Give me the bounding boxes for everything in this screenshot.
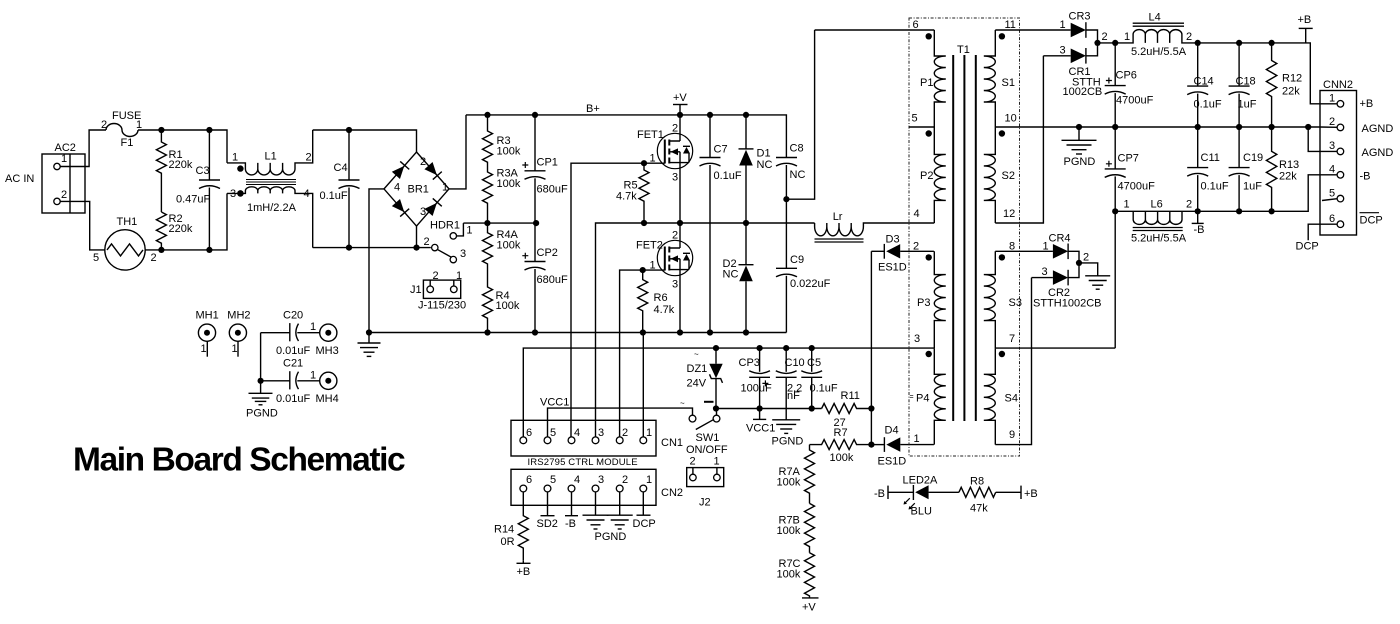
svg-text:11: 11 bbox=[1005, 19, 1016, 31]
svg-text:S4: S4 bbox=[1005, 393, 1018, 405]
svg-text:3: 3 bbox=[598, 427, 604, 439]
winding P1 bbox=[934, 30, 946, 127]
connector CN1 bbox=[511, 420, 656, 456]
svg-text:DCP: DCP bbox=[1360, 215, 1383, 227]
svg-text:100k: 100k bbox=[777, 477, 801, 489]
node junction C10 top bbox=[783, 345, 789, 351]
wire BR1 pin1 to B+ rail bbox=[449, 115, 466, 189]
svg-text:2: 2 bbox=[1186, 31, 1192, 43]
inductor L6 5.2uH/5.5A bbox=[1133, 211, 1182, 224]
svg-text:VCC1: VCC1 bbox=[540, 397, 569, 409]
svg-text:4: 4 bbox=[394, 182, 400, 194]
svg-text:+V: +V bbox=[802, 602, 816, 614]
svg-text:PGND: PGND bbox=[595, 531, 627, 543]
svg-text:0R: 0R bbox=[501, 536, 515, 548]
svg-text:5.2uH/5.5A: 5.2uH/5.5A bbox=[1131, 233, 1187, 245]
svg-text:~: ~ bbox=[680, 399, 685, 408]
svg-text:SD2: SD2 bbox=[537, 518, 558, 530]
svg-text:1: 1 bbox=[650, 260, 656, 272]
node junction C18 bottom bbox=[1236, 124, 1242, 130]
node T1 phase dot S4 bbox=[999, 351, 1005, 357]
svg-text:BLU: BLU bbox=[911, 506, 932, 518]
svg-text:1: 1 bbox=[1329, 93, 1335, 105]
svg-text:6: 6 bbox=[1329, 213, 1335, 225]
svg-text:2: 2 bbox=[622, 474, 628, 486]
svg-text:+B: +B bbox=[517, 566, 531, 578]
wire bottom-left rail bbox=[145, 193, 227, 250]
resistor R14 0R bbox=[518, 492, 528, 560]
svg-text:MH2: MH2 bbox=[227, 310, 250, 322]
resistor R7A 100k bbox=[805, 445, 815, 504]
svg-text:680uF: 680uF bbox=[537, 274, 568, 286]
svg-text:L4: L4 bbox=[1149, 12, 1161, 24]
wire T1 pin12 to CR1 bbox=[995, 56, 1043, 223]
svg-text:C20: C20 bbox=[283, 310, 303, 322]
svg-text:1: 1 bbox=[1124, 31, 1130, 43]
svg-text:Lr: Lr bbox=[833, 211, 843, 223]
node junction L6 pin1 bbox=[1112, 208, 1118, 214]
wire power ground rail bbox=[369, 332, 786, 334]
svg-text:ES1D: ES1D bbox=[878, 262, 907, 274]
wire CR output node bbox=[1098, 42, 1116, 44]
svg-text:CN1: CN1 bbox=[661, 437, 683, 449]
svg-text:-B: -B bbox=[1194, 224, 1205, 236]
svg-text:DZ1: DZ1 bbox=[687, 363, 708, 375]
wire CNN2 pin3 riser bbox=[1308, 127, 1320, 151]
svg-text:C4: C4 bbox=[334, 162, 348, 174]
svg-text:680uF: 680uF bbox=[537, 184, 568, 196]
node junction CP2 bottom bbox=[532, 329, 538, 335]
node junction CP1 top bbox=[532, 112, 538, 118]
wire half-bridge mid rail bbox=[596, 223, 815, 440]
node junction R12 bottom bbox=[1269, 124, 1275, 130]
wire CR2 CR4 to ground bbox=[1079, 263, 1098, 276]
resistor R11 27 bbox=[822, 404, 872, 414]
capacitor C8 NC bbox=[776, 157, 797, 159]
svg-text:C8: C8 bbox=[790, 143, 804, 155]
svg-text:CP1: CP1 bbox=[537, 157, 558, 169]
node junction D1 top bbox=[743, 112, 749, 118]
svg-text:C3: C3 bbox=[196, 165, 210, 177]
svg-text:2: 2 bbox=[151, 252, 157, 264]
svg-text:P3: P3 bbox=[917, 297, 930, 309]
node junction C5 top bbox=[809, 345, 815, 351]
svg-text:1: 1 bbox=[201, 343, 207, 355]
power +V bbox=[679, 105, 681, 115]
svg-text:C11: C11 bbox=[1201, 152, 1220, 164]
node junction C18 top bbox=[1236, 40, 1242, 46]
svg-text:AC IN: AC IN bbox=[5, 173, 34, 185]
svg-text:1: 1 bbox=[232, 343, 238, 355]
wire CN1 pin1 to gnd rail bbox=[642, 333, 644, 441]
svg-text:R13: R13 bbox=[1279, 159, 1299, 171]
svg-text:0.1uF: 0.1uF bbox=[714, 170, 742, 182]
svg-text:3: 3 bbox=[914, 333, 920, 345]
svg-text:B+: B+ bbox=[586, 103, 600, 115]
diode DZ1 24V zener bbox=[715, 348, 717, 364]
svg-text:CR4: CR4 bbox=[1049, 233, 1071, 245]
svg-text:S1: S1 bbox=[1002, 77, 1015, 89]
svg-text:3: 3 bbox=[672, 279, 678, 291]
svg-text:S2: S2 bbox=[1002, 170, 1015, 182]
svg-text:2: 2 bbox=[622, 427, 628, 439]
svg-text:-B: -B bbox=[565, 518, 576, 530]
connector J1 J-115/230 bbox=[423, 280, 460, 298]
svg-text:3: 3 bbox=[1060, 45, 1066, 57]
fuse F1 bbox=[106, 124, 138, 137]
svg-text:BR1: BR1 bbox=[408, 184, 429, 196]
inductor L1 bottom winding bbox=[227, 187, 313, 248]
svg-text:=: = bbox=[910, 394, 914, 401]
wire divider mid rail bbox=[463, 222, 536, 224]
svg-text:4: 4 bbox=[1329, 164, 1335, 176]
node junction FET2 source bbox=[677, 329, 683, 335]
svg-text:22k: 22k bbox=[1279, 171, 1297, 183]
resistor R4A 100k bbox=[483, 223, 493, 283]
svg-text:1: 1 bbox=[714, 456, 720, 468]
winding S2 bbox=[984, 127, 996, 223]
svg-text:1: 1 bbox=[914, 433, 920, 445]
svg-text:VCC1: VCC1 bbox=[746, 423, 775, 435]
wire T1 pin10 AGND rail bbox=[995, 126, 1320, 128]
capacitor C9 0.022uF bbox=[776, 267, 797, 269]
svg-text:0.1uF: 0.1uF bbox=[1201, 181, 1229, 193]
resistor R7 100k bbox=[810, 440, 872, 450]
node junction CP1 bottom bbox=[533, 220, 539, 226]
node junction FET2 gate bbox=[640, 267, 646, 273]
capacitor CP3 100uF bbox=[759, 348, 761, 372]
svg-text:P2: P2 bbox=[920, 170, 933, 182]
hole MH4 bbox=[320, 372, 337, 389]
ground PGND mid rail bbox=[1078, 127, 1080, 140]
svg-text:C5: C5 bbox=[807, 357, 821, 369]
node T1 phase dot P2 bbox=[926, 130, 932, 136]
winding P2 bbox=[934, 127, 946, 223]
capacitor CP6 4700uF bbox=[1114, 43, 1116, 86]
svg-text:100k: 100k bbox=[777, 525, 801, 537]
net -B flag bbox=[571, 492, 573, 516]
svg-text:CP2: CP2 bbox=[537, 247, 558, 259]
wire T1 pin11 lead bbox=[995, 29, 1070, 31]
svg-text:1002CB: 1002CB bbox=[1063, 86, 1103, 98]
svg-text:2: 2 bbox=[61, 189, 67, 201]
svg-text:ON/OFF: ON/OFF bbox=[686, 444, 728, 456]
svg-text:2: 2 bbox=[913, 241, 919, 253]
wire AC2 pin1 to fuse bbox=[60, 130, 106, 167]
svg-text:4: 4 bbox=[574, 427, 580, 439]
wire T1 pin7 lead bbox=[995, 347, 1115, 349]
svg-text:0.1uF: 0.1uF bbox=[1194, 99, 1222, 111]
svg-text:C14: C14 bbox=[1194, 76, 1214, 88]
net SD2 flag bbox=[547, 492, 549, 516]
svg-text:+B: +B bbox=[1360, 98, 1374, 110]
capacitor CP1 680uF bbox=[534, 115, 536, 171]
node L1 phase dot pin3 bbox=[237, 190, 244, 197]
node junction R7 right bbox=[868, 442, 874, 448]
svg-text:5: 5 bbox=[550, 427, 556, 439]
winding S4 bbox=[984, 348, 996, 445]
winding S1 bbox=[984, 30, 996, 127]
svg-text:0.1uF: 0.1uF bbox=[810, 383, 838, 395]
wire HDR1 blade bbox=[438, 250, 452, 258]
svg-text:2: 2 bbox=[424, 236, 430, 248]
svg-text:AGND: AGND bbox=[1362, 147, 1394, 159]
node junction C4 top bbox=[346, 127, 352, 133]
node junction D1 bottom bbox=[743, 220, 749, 226]
node junction DZ1 bottom bbox=[713, 405, 719, 411]
svg-text:0.1uF: 0.1uF bbox=[320, 190, 348, 202]
node T1 phase dot P3 bbox=[926, 254, 932, 260]
resistor R8 47k bbox=[959, 487, 996, 497]
svg-text:2: 2 bbox=[1083, 252, 1089, 264]
svg-text:1: 1 bbox=[650, 153, 656, 165]
resistor R6 4.7k bbox=[638, 270, 648, 332]
wire AC2 pin2 to TH1 bbox=[60, 201, 105, 250]
svg-text:NC: NC bbox=[790, 169, 806, 181]
resistor R1 220k bbox=[156, 130, 166, 212]
inductor Lr bbox=[815, 223, 935, 236]
node junction C5 bottom bbox=[809, 405, 815, 411]
node junction AGND PGND bbox=[1076, 124, 1082, 130]
svg-text:T1: T1 bbox=[957, 44, 970, 56]
capacitor CP7 4700uF bbox=[1114, 127, 1116, 169]
svg-text:3: 3 bbox=[460, 248, 466, 260]
svg-text:4: 4 bbox=[574, 474, 580, 486]
capacitor C18 1uF bbox=[1238, 43, 1240, 86]
node junction C14 top bbox=[1195, 40, 1201, 46]
svg-text:FET2: FET2 bbox=[636, 240, 663, 252]
svg-text:5: 5 bbox=[550, 474, 556, 486]
node T1 phase dot S2 bbox=[999, 130, 1005, 136]
node junction C3 top bbox=[206, 127, 212, 133]
transformer T1 boundary bbox=[909, 18, 1020, 456]
node junction R4 bottom bbox=[484, 329, 490, 335]
svg-text:J2: J2 bbox=[699, 497, 711, 509]
node junction C3 bottom bbox=[206, 247, 212, 253]
svg-text:100k: 100k bbox=[777, 569, 801, 581]
svg-text:C7: C7 bbox=[714, 144, 728, 156]
svg-text:0.01uF: 0.01uF bbox=[276, 345, 311, 357]
svg-text:2: 2 bbox=[672, 230, 678, 242]
node junction FET2 drain bbox=[677, 220, 683, 226]
net DCP flag bbox=[642, 492, 644, 515]
wire C8 bottom to T1 pin6 bbox=[786, 30, 814, 199]
capacitor C19 1uF bbox=[1238, 127, 1240, 168]
node T1 phase dot S3 bbox=[999, 254, 1005, 260]
wire VCC1 lower rail bbox=[716, 408, 822, 410]
node junction R5 bottom bbox=[641, 220, 647, 226]
wire T1 pin8 lead bbox=[995, 250, 1053, 252]
svg-text:5: 5 bbox=[912, 113, 918, 125]
wire -B to LED bbox=[888, 491, 913, 493]
power +B below R14 bbox=[517, 562, 531, 564]
wire C20 C21 left junction bbox=[260, 333, 262, 394]
svg-text:PGND: PGND bbox=[1064, 156, 1096, 168]
wire +B rail top bbox=[1198, 43, 1320, 104]
svg-text:47k: 47k bbox=[970, 503, 988, 515]
node junction CR node CP6 bbox=[1112, 40, 1118, 46]
svg-text:3: 3 bbox=[230, 188, 236, 200]
wire D3 R11 R7 vertical bbox=[870, 251, 872, 444]
svg-text:L6: L6 bbox=[1151, 199, 1163, 211]
svg-text:1: 1 bbox=[1060, 19, 1066, 31]
node junction BR1 bottom bbox=[413, 245, 419, 251]
node junction C19 bottom bbox=[1236, 208, 1242, 214]
node T1 phase dot P4 bbox=[926, 351, 932, 357]
wire FET2 gate to CN1 pin2 bbox=[620, 270, 643, 440]
inductor L1 1mH/2.2A top winding bbox=[227, 130, 313, 175]
winding P4 bbox=[934, 348, 946, 445]
connector CN2 bbox=[511, 469, 656, 505]
node junction C7 top bbox=[707, 112, 713, 118]
svg-text:-B: -B bbox=[1360, 171, 1371, 183]
svg-text:2: 2 bbox=[101, 119, 107, 131]
node minus mark bbox=[704, 401, 714, 403]
svg-text:2: 2 bbox=[1102, 31, 1108, 43]
svg-text:R11: R11 bbox=[841, 390, 860, 402]
svg-text:2: 2 bbox=[672, 123, 678, 135]
svg-text:1: 1 bbox=[310, 321, 316, 333]
hole MH3 bbox=[320, 324, 337, 341]
svg-text:D3: D3 bbox=[886, 234, 900, 246]
wire top rail L1 to BR1 bbox=[313, 130, 417, 152]
svg-text:0.01uF: 0.01uF bbox=[276, 393, 311, 405]
svg-text:0.022uF: 0.022uF bbox=[790, 278, 831, 290]
wire R8 to +B bbox=[996, 491, 1021, 493]
svg-text:+V: +V bbox=[673, 92, 687, 104]
svg-text:2: 2 bbox=[690, 456, 696, 468]
wire BR1 pin3 down bbox=[416, 226, 418, 248]
svg-text:8: 8 bbox=[1009, 241, 1015, 253]
svg-text:12: 12 bbox=[1003, 208, 1015, 220]
svg-text:1: 1 bbox=[442, 182, 448, 194]
svg-text:~: ~ bbox=[694, 350, 699, 359]
node junction gnd rail corner bbox=[366, 329, 372, 335]
svg-text:ES1D: ES1D bbox=[878, 456, 907, 468]
svg-text:D1: D1 bbox=[757, 148, 771, 160]
svg-text:2: 2 bbox=[306, 152, 312, 164]
svg-text:24V: 24V bbox=[687, 378, 707, 390]
wire HDR1 pin1 to divider mid bbox=[457, 223, 464, 236]
wire T1 pin5 stub bbox=[909, 126, 934, 128]
svg-text:0.47uF: 0.47uF bbox=[176, 194, 211, 206]
diode CR3 bbox=[1071, 23, 1086, 38]
svg-text:6: 6 bbox=[913, 19, 919, 31]
wire bottom rail L1 pin4 to HDR1 bbox=[313, 247, 431, 249]
svg-text:1: 1 bbox=[61, 153, 67, 165]
svg-text:D4: D4 bbox=[885, 425, 899, 437]
svg-text:4: 4 bbox=[304, 188, 310, 200]
node junction CNN2 pin3 riser bbox=[1305, 124, 1311, 130]
capacitor C3 0.47uF bbox=[208, 130, 210, 180]
svg-text:C19: C19 bbox=[1243, 152, 1263, 164]
svg-text:L1: L1 bbox=[265, 151, 277, 163]
svg-text:10: 10 bbox=[1005, 113, 1017, 125]
capacitor C7 0.1uF bbox=[709, 115, 711, 158]
svg-text:CNN2: CNN2 bbox=[1323, 79, 1353, 91]
node junction R12 top bbox=[1269, 40, 1275, 46]
capacitor C10 2.2nF bbox=[785, 348, 787, 372]
svg-text:2: 2 bbox=[433, 270, 439, 282]
svg-text:4.7k: 4.7k bbox=[654, 304, 675, 316]
svg-text:NC: NC bbox=[757, 159, 773, 171]
svg-text:4700uF: 4700uF bbox=[1116, 95, 1154, 107]
node junction L6 pin2 bbox=[1195, 208, 1201, 214]
svg-text:100k: 100k bbox=[497, 178, 521, 190]
svg-text:CR3: CR3 bbox=[1069, 11, 1091, 23]
svg-text:PGND: PGND bbox=[772, 436, 804, 448]
diode D4 ES1D bbox=[871, 444, 884, 446]
svg-text:6: 6 bbox=[526, 474, 532, 486]
svg-text:3: 3 bbox=[1042, 266, 1048, 278]
node junction C4 bottom bbox=[346, 245, 352, 251]
node junction R3A bottom bbox=[484, 220, 490, 226]
wire FET1 gate to CN1 pin4 bbox=[571, 163, 644, 440]
svg-text:6: 6 bbox=[526, 427, 532, 439]
svg-text:1mH/2.2A: 1mH/2.2A bbox=[247, 202, 297, 214]
capacitor C11 0.1uF bbox=[1197, 127, 1199, 168]
ground PGND below C10 bbox=[772, 420, 800, 434]
node junction R3 top bbox=[484, 112, 490, 118]
thermistor TH1 bbox=[105, 230, 145, 270]
svg-text:nF: nF bbox=[787, 390, 800, 402]
svg-text:1: 1 bbox=[456, 270, 462, 282]
wire T1 pin6 lead bbox=[815, 29, 935, 31]
svg-text:J-115/230: J-115/230 bbox=[418, 300, 466, 312]
wire -B vertical pin7 to L6 bbox=[1114, 211, 1116, 348]
svg-text:C9: C9 bbox=[790, 254, 804, 266]
svg-text:3: 3 bbox=[1329, 140, 1335, 152]
svg-text:1: 1 bbox=[310, 370, 316, 382]
node T1 phase dot S1 bbox=[999, 33, 1005, 39]
node junction R11 right bbox=[868, 405, 874, 411]
ground CN2 pin2 bbox=[619, 492, 621, 515]
svg-text:3: 3 bbox=[598, 474, 604, 486]
svg-text:R6: R6 bbox=[654, 292, 668, 304]
svg-text:C21: C21 bbox=[283, 358, 303, 370]
ground below CR4 bbox=[1085, 276, 1110, 289]
ground PGND below C21 bbox=[249, 393, 273, 405]
node junction R13 bottom bbox=[1269, 208, 1275, 214]
svg-text:F1: F1 bbox=[121, 137, 134, 149]
resistor R2 220k bbox=[156, 212, 166, 250]
svg-text:2: 2 bbox=[1186, 199, 1192, 211]
wire CN1 pin5 to SW1 bbox=[548, 408, 693, 440]
svg-text:HDR1: HDR1 bbox=[430, 220, 460, 232]
resistor R13 22k bbox=[1266, 127, 1276, 211]
wire T1 pin9 to CR2 bbox=[995, 278, 1031, 445]
svg-text:SW1: SW1 bbox=[696, 432, 720, 444]
node junction C7 bottom bbox=[707, 329, 713, 335]
svg-text:1: 1 bbox=[646, 474, 652, 486]
diode CR1 STTH1002CB bbox=[1071, 49, 1086, 64]
power +V below R7C bbox=[802, 597, 819, 599]
connector J2 bbox=[687, 468, 724, 487]
diode D2 NC bbox=[739, 264, 754, 266]
power VCC1 flag bbox=[753, 418, 766, 420]
svg-text:MH1: MH1 bbox=[196, 310, 219, 322]
capacitor C4 0.1uF bbox=[348, 130, 350, 180]
svg-text:7: 7 bbox=[1009, 333, 1015, 345]
node junction R2 bottom bbox=[158, 247, 164, 253]
svg-text:P1: P1 bbox=[920, 77, 933, 89]
svg-text:S3: S3 bbox=[1009, 297, 1022, 309]
ground below BR1 bbox=[358, 343, 381, 356]
svg-text:3: 3 bbox=[672, 172, 678, 184]
node junction DZ1 top bbox=[713, 345, 719, 351]
resistor R12 22k bbox=[1266, 43, 1276, 127]
winding S3 bbox=[984, 251, 996, 348]
